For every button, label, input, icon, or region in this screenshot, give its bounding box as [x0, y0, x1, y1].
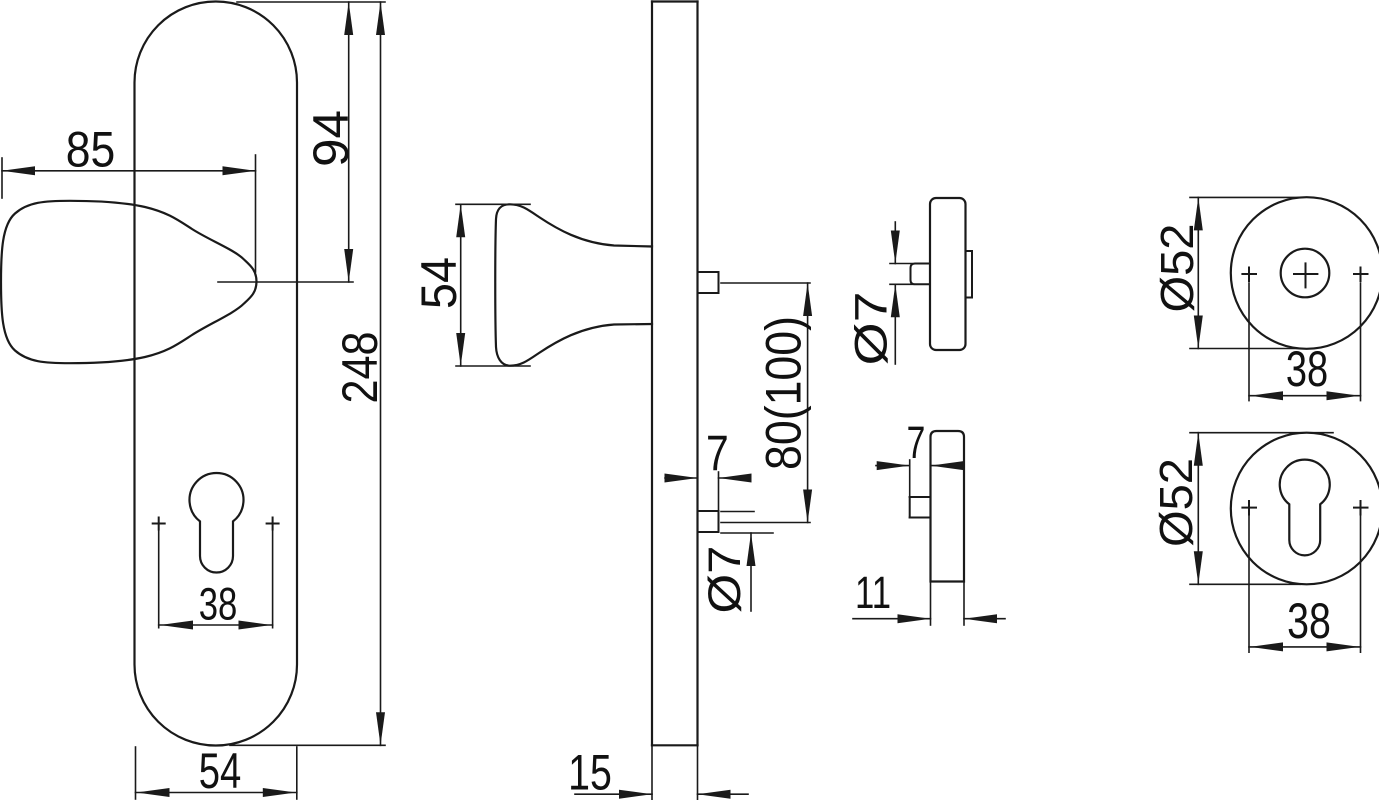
- svg-text:54: 54: [199, 743, 242, 799]
- svg-text:85: 85: [66, 122, 116, 178]
- dimension 85 (knob width): [2, 122, 256, 273]
- knob rosette rear tab: [966, 251, 973, 298]
- svg-text:Ø52: Ø52: [1151, 224, 1203, 313]
- key rosette front circle: [1231, 433, 1379, 585]
- dimension 38 (knob rosette screw spacing): [1249, 283, 1361, 401]
- screw marker left (plus): [1242, 501, 1256, 515]
- dimension 38 (screw hole spacing on plate): [159, 531, 273, 630]
- key rosette fixing peg: [910, 497, 931, 518]
- dimension 7 (cylinder peg protrusion): [665, 426, 752, 511]
- dimension 15 (plate thickness): [568, 745, 748, 800]
- screw marker right (plus): [1354, 501, 1368, 515]
- center cross: [1294, 263, 1317, 287]
- keyhole euro profile on rosette: [1280, 460, 1330, 556]
- bottom extension line (plate bottom): [230, 744, 385, 746]
- svg-text:Ø7: Ø7: [846, 292, 897, 366]
- knob front view (pear shaped): [1, 201, 257, 363]
- svg-text:54: 54: [411, 257, 467, 309]
- svg-text:80(100): 80(100): [756, 316, 812, 470]
- svg-text:94: 94: [303, 110, 359, 167]
- plate side view bar: [652, 2, 698, 746]
- knob centerline extension: [218, 281, 353, 283]
- svg-text:Ø52: Ø52: [1150, 458, 1202, 547]
- cylinder peg side view (lower): [698, 511, 719, 532]
- dimension 94 (top to knob center): [303, 2, 359, 282]
- knob spindle hole circle: [1281, 249, 1330, 298]
- svg-text:15: 15: [568, 745, 612, 800]
- knob rosette side view disc: [930, 198, 966, 350]
- dimension diameter 52 (key rosette): [1150, 433, 1333, 585]
- dimension 38 (key rosette screw spacing): [1249, 516, 1361, 652]
- svg-text:38: 38: [1287, 593, 1331, 649]
- dimension 7 (key rosette peg protrusion): [876, 417, 964, 497]
- screw hole marker left (plus): [153, 518, 165, 530]
- svg-text:Ø7: Ø7: [699, 546, 750, 614]
- svg-text:248: 248: [332, 332, 388, 404]
- dimension diameter 7 (knob rosette peg): [846, 222, 913, 366]
- screw marker right (plus): [1354, 268, 1368, 282]
- dimension 80(100) (peg spacing): [721, 283, 812, 523]
- dimension 248 (plate length): [332, 2, 388, 745]
- key rosette side view disc: [931, 431, 965, 582]
- svg-text:38: 38: [1286, 341, 1328, 397]
- svg-text:7: 7: [706, 426, 729, 482]
- svg-text:7: 7: [907, 417, 926, 468]
- dimension diameter 52 (knob rosette): [1151, 197, 1300, 348]
- svg-text:11: 11: [855, 567, 891, 618]
- knob rosette front circle: [1231, 197, 1379, 349]
- svg-text:38: 38: [199, 579, 238, 630]
- knob rosette fixing peg: [911, 264, 931, 285]
- keyhole euro profile on plate: [189, 473, 243, 572]
- dimension diameter 7 (cylinder peg): [699, 512, 773, 614]
- plate front view outline: [135, 2, 298, 746]
- screw hole marker right (plus): [267, 518, 279, 530]
- screw marker left (plus): [1242, 268, 1256, 282]
- knob side profile: [495, 204, 652, 365]
- dimension 54 (plate width): [136, 743, 297, 799]
- spindle peg side view (upper): [698, 272, 719, 293]
- dimension 54 (knob height side view): [411, 204, 530, 366]
- dimension 11 (key rosette thickness): [853, 567, 1005, 625]
- top extension line (plate top): [237, 1, 385, 3]
